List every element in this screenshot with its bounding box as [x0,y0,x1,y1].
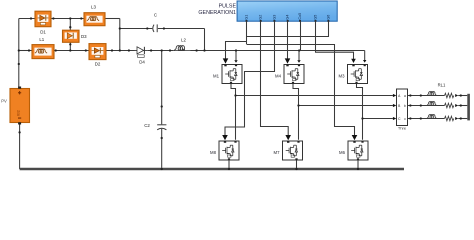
svg-text:Co5: Co5 [298,13,302,20]
svg-text:G5: G5 [314,15,318,20]
svg-text:L3: L3 [91,5,96,10]
svg-text:M4: M4 [275,74,282,79]
svg-text:M7: M7 [274,150,281,155]
svg-text:D2: D2 [95,62,101,67]
svg-text:M8: M8 [210,150,217,155]
svg-text:RL1: RL1 [438,83,446,88]
svg-text:M1: M1 [213,74,220,79]
svg-text:Thre: Thre [398,125,407,130]
svg-text:PULSE: PULSE [219,4,237,10]
svg-text:a: a [404,94,406,98]
svg-text:M6: M6 [339,150,346,155]
svg-text:G3: G3 [272,15,276,20]
svg-text:D4: D4 [139,60,145,65]
svg-text:b: b [404,104,406,108]
svg-text:GENERATION1: GENERATION1 [198,10,236,16]
svg-text:D1: D1 [40,30,46,35]
svg-text:L1: L1 [39,37,44,42]
svg-text:D3: D3 [81,34,87,39]
svg-text:G2: G2 [259,15,263,20]
svg-text:602: 602 [17,110,21,116]
svg-text:M3: M3 [339,74,346,79]
svg-text:G4: G4 [286,15,290,20]
svg-text:G1: G1 [245,15,249,20]
svg-text:G6: G6 [326,15,330,20]
svg-text:PV: PV [1,99,7,104]
svg-text:C: C [154,12,157,17]
svg-text:C2: C2 [144,123,150,128]
svg-text:L2: L2 [181,38,186,43]
